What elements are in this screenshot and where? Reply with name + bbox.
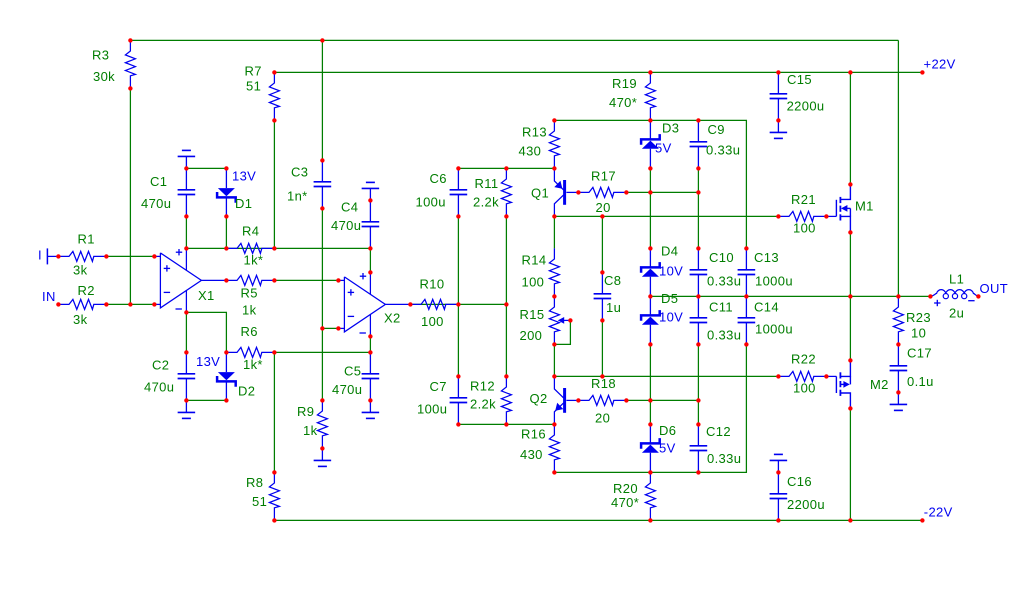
capacitor C14: [738, 296, 756, 344]
mosfet M1: [826, 184, 850, 232]
svg-text:100u: 100u: [417, 402, 447, 417]
svg-text:1000u: 1000u: [755, 274, 793, 289]
svg-text:1k*: 1k*: [243, 357, 263, 372]
ground above C16: [770, 454, 788, 472]
resistor R11: [501, 168, 511, 216]
svg-text:C4: C4: [341, 200, 358, 215]
resistor R7: [269, 72, 279, 120]
svg-text:-22V: -22V: [924, 504, 953, 519]
wire D1 bottom to R4: [225, 216, 227, 248]
wire R17 to zener/C9 columns: [626, 191, 698, 193]
wire C9 to C10: [697, 168, 699, 248]
svg-text:0.33u: 0.33u: [707, 451, 741, 466]
svg-text:C8: C8: [604, 273, 621, 288]
resistor R23: [893, 296, 903, 344]
svg-text:2200u: 2200u: [787, 99, 825, 114]
svg-text:OUT: OUT: [980, 281, 1009, 296]
capacitor C7: [450, 376, 468, 424]
svg-text:R15: R15: [520, 307, 545, 322]
zener diode D1: [217, 168, 236, 216]
svg-text:3k: 3k: [73, 263, 88, 278]
svg-text:C10: C10: [709, 250, 734, 265]
capacitor C15: [770, 72, 788, 120]
svg-text:C6: C6: [430, 171, 447, 186]
capacitor C2: [178, 352, 196, 400]
svg-text:470*: 470*: [609, 95, 637, 110]
svg-text:20: 20: [595, 411, 610, 426]
ground below C15: [770, 120, 788, 138]
svg-text:R4: R4: [242, 224, 259, 239]
wire C2 bottom to D2 bottom: [186, 399, 226, 401]
wire D5 bottom to D6 top: [649, 344, 651, 424]
junction and pin dots: [56, 38, 980, 522]
svg-text:51: 51: [252, 494, 267, 509]
resistor R20: [645, 472, 655, 520]
port I bar: [47, 248, 58, 264]
resistor R22: [778, 371, 826, 381]
svg-text:C3: C3: [291, 165, 308, 180]
wire C8 bottom to Q2 row: [601, 320, 603, 376]
wire C4 bottom to X2 +supply: [369, 248, 371, 272]
svg-text:20: 20: [596, 200, 611, 215]
svg-text:IN: IN: [42, 289, 56, 304]
capacitor C16: [770, 472, 788, 520]
svg-text:R7: R7: [245, 64, 262, 79]
resistor R16: [549, 424, 559, 472]
op-amp X2: [338, 272, 410, 336]
resistor R17: [578, 187, 626, 197]
svg-text:1k: 1k: [303, 423, 318, 438]
wire X2 -supply row / R6 to C5: [274, 351, 370, 353]
svg-text:1k*: 1k*: [244, 253, 264, 268]
svg-text:1k: 1k: [242, 303, 257, 318]
wire C1 bottom to X1 +supply: [185, 216, 187, 248]
svg-text:X1: X1: [198, 288, 215, 303]
svg-text:470u: 470u: [141, 196, 171, 211]
svg-text:D5: D5: [661, 291, 678, 306]
resistor R6: [226, 347, 274, 357]
op-amp X1: [154, 248, 226, 312]
svg-text:+22V: +22V: [924, 57, 956, 72]
wire X1 supply row to C4/X2: [186, 247, 370, 249]
resistor R12: [501, 376, 511, 424]
svg-text:R19: R19: [612, 76, 637, 91]
svg-text:R9: R9: [297, 404, 314, 419]
svg-text:Q2: Q2: [530, 391, 548, 406]
ground below C17: [890, 392, 908, 410]
mosfet M2: [826, 360, 850, 408]
wire Q1 collector to R14: [553, 216, 555, 248]
svg-text:430: 430: [520, 447, 543, 462]
svg-text:200: 200: [520, 328, 543, 343]
svg-text:2200u: 2200u: [787, 497, 825, 512]
resistor R10: [410, 299, 458, 309]
svg-text:100: 100: [421, 314, 444, 329]
svg-text:C1: C1: [150, 174, 167, 189]
svg-text:C16: C16: [787, 474, 812, 489]
wire R6 node down to R8: [273, 352, 275, 472]
svg-text:13V: 13V: [232, 169, 256, 184]
svg-text:R5: R5: [241, 286, 258, 301]
capacitor C5: [362, 352, 380, 400]
svg-text:470u: 470u: [332, 382, 362, 397]
svg-text:470u: 470u: [331, 218, 361, 233]
resistor R1: [58, 251, 106, 261]
svg-text:470u: 470u: [144, 380, 174, 395]
svg-text:2.2k: 2.2k: [473, 195, 499, 210]
component labels (green): [73, 48, 964, 513]
zener diode D4: [641, 248, 660, 296]
capacitor C17: [890, 344, 908, 392]
transistor Q2: [554, 376, 578, 424]
svg-text:1n*: 1n*: [287, 189, 308, 204]
resistor R5: [226, 275, 274, 285]
wire R11 bottom to R12 top: [505, 216, 507, 376]
wire X2 out to R10 row: [410, 303, 506, 305]
svg-text:C12: C12: [706, 424, 731, 439]
svg-text:M2: M2: [870, 377, 889, 392]
wire top feedback rail: [130, 39, 898, 41]
wire feedback drop to output node: [897, 40, 899, 296]
svg-text:1u: 1u: [606, 300, 621, 315]
svg-text:100: 100: [793, 381, 816, 396]
resistor R14: [549, 248, 559, 296]
svg-text:470*: 470*: [611, 495, 639, 510]
zener diode D3: [641, 120, 660, 168]
wire C7 bottom to Q2 emitter row: [458, 423, 554, 425]
wire Q1 row to C8 top: [601, 216, 603, 272]
ground below R9: [314, 448, 332, 466]
wire X1 -supply to C2: [185, 312, 187, 352]
zener diode D5: [641, 296, 660, 344]
svg-text:C11: C11: [709, 300, 733, 315]
svg-text:R23: R23: [906, 310, 931, 325]
svg-text:0.1u: 0.1u: [907, 374, 934, 389]
wire R15 wiper short: [554, 320, 570, 344]
svg-text:R10: R10: [420, 277, 445, 292]
capacitor C3: [314, 160, 332, 208]
svg-text:R3: R3: [92, 48, 109, 63]
capacitor C6: [450, 168, 468, 216]
wire C1 to D1 top: [186, 167, 226, 169]
wire M2 drain to -22V rail: [849, 408, 851, 520]
wire R15 bottom to Q2 collector: [553, 344, 555, 376]
svg-text:R1: R1: [78, 232, 95, 247]
svg-text:Q1: Q1: [531, 186, 549, 201]
ground below C2: [178, 400, 196, 418]
svg-text:R21: R21: [791, 192, 816, 207]
svg-text:D2: D2: [238, 384, 255, 399]
wire Q2 collector row to R22: [554, 375, 778, 377]
wire R16 bottom row to C14: [554, 344, 746, 472]
svg-text:C5: C5: [344, 364, 361, 379]
inductor L1: [930, 290, 978, 299]
svg-text:R13: R13: [522, 125, 547, 140]
ground above C1: [178, 150, 196, 168]
resistor R18: [578, 395, 626, 405]
capacitor C13: [738, 248, 756, 296]
svg-text:100: 100: [793, 221, 816, 236]
svg-text:R11: R11: [475, 176, 499, 191]
capacitor C1: [178, 168, 196, 216]
svg-text:L1: L1: [949, 272, 964, 287]
svg-text:0.33u: 0.33u: [707, 328, 741, 343]
svg-text:5V: 5V: [659, 441, 676, 456]
resistor R21: [778, 211, 826, 221]
wire top rail to C3: [321, 40, 323, 160]
svg-text:I: I: [38, 248, 42, 263]
wire +22V rail: [274, 71, 922, 73]
svg-text:10: 10: [911, 326, 926, 341]
svg-text:R2: R2: [78, 283, 95, 298]
svg-text:C2: C2: [152, 358, 169, 373]
resistor R9: [317, 400, 327, 448]
svg-text:R17: R17: [591, 169, 616, 184]
resistor R19: [645, 72, 655, 120]
svg-text:51: 51: [246, 79, 261, 94]
svg-text:2.2k: 2.2k: [470, 397, 496, 412]
svg-text:C9: C9: [708, 122, 725, 137]
wire Q1 collector row to R21: [554, 215, 778, 217]
zener diode D6: [641, 424, 660, 472]
svg-text:D1: D1: [235, 196, 252, 211]
wire -22V rail: [274, 519, 922, 521]
svg-text:0.33u: 0.33u: [707, 274, 741, 289]
wire R13/R19/C9 row: [554, 120, 746, 248]
svg-text:R12: R12: [470, 379, 495, 394]
svg-text:10V: 10V: [659, 310, 683, 325]
svg-text:R8: R8: [246, 475, 263, 490]
svg-text:R16: R16: [521, 427, 546, 442]
svg-text:C14: C14: [754, 300, 779, 315]
svg-text:C7: C7: [430, 379, 447, 394]
inductor L1 polarity +: [934, 300, 940, 306]
svg-text:D6: D6: [659, 423, 676, 438]
svg-text:100u: 100u: [416, 194, 446, 209]
ground above C4: [362, 182, 380, 200]
svg-text:2u: 2u: [949, 306, 964, 321]
capacitor C4: [362, 200, 380, 248]
capacitor C12: [690, 424, 708, 472]
capacitor C9: [690, 120, 708, 168]
transistor Q1: [554, 168, 578, 216]
wire R2 to X1 -input: [106, 303, 154, 305]
svg-text:100: 100: [522, 275, 545, 290]
svg-text:5V: 5V: [655, 141, 672, 156]
svg-text:X2: X2: [384, 311, 401, 326]
wire M1 source to M2 source: [849, 232, 851, 360]
svg-text:C13: C13: [754, 250, 779, 265]
wire R18 to zener/C12 columns: [626, 399, 698, 401]
net and value labels (blue): [38, 57, 1008, 520]
inductor L1 polarity -: [968, 300, 974, 302]
wire output node row: [650, 295, 930, 297]
svg-text:M1: M1: [855, 199, 874, 214]
svg-text:C15: C15: [787, 72, 812, 87]
wire +22V to M1 drain: [849, 72, 851, 184]
svg-text:1000u: 1000u: [755, 322, 793, 337]
svg-text:13V: 13V: [196, 354, 220, 369]
resistor R13: [549, 120, 559, 168]
svg-text:R14: R14: [522, 253, 547, 268]
wire C11 bottom to C12 top: [697, 344, 699, 424]
svg-text:C17: C17: [907, 346, 932, 361]
capacitor C11: [690, 296, 708, 344]
wire C3 to X2 inverting node: [321, 208, 323, 400]
resistor R8: [269, 472, 279, 520]
svg-text:3k: 3k: [73, 312, 88, 327]
ground below C5: [362, 400, 380, 418]
resistor R2: [58, 299, 106, 309]
svg-text:D3: D3: [662, 121, 679, 136]
wire X2 -input to C3 node: [322, 327, 338, 329]
svg-text:R20: R20: [613, 481, 638, 496]
wire R1 to X1 +input: [106, 255, 154, 257]
svg-text:R18: R18: [591, 376, 616, 391]
svg-text:30k: 30k: [93, 69, 115, 84]
wire X1 -supply jog: [186, 312, 226, 352]
svg-text:R6: R6: [241, 324, 258, 339]
wire bias row C6-R11-Q1: [458, 167, 554, 169]
wire R7 bottom to R4 row: [273, 120, 275, 248]
capacitor C10: [690, 248, 708, 296]
resistor R4: [226, 243, 274, 253]
wire X2 -supply to C5: [369, 336, 371, 352]
capacitor C8: [594, 272, 612, 320]
svg-text:D4: D4: [661, 244, 678, 259]
svg-text:0.33u: 0.33u: [706, 143, 740, 158]
zener diode D2: [217, 352, 236, 400]
wire D3 to D4: [649, 168, 651, 248]
svg-text:R22: R22: [791, 352, 816, 367]
potentiometer R15: [549, 296, 570, 344]
resistor R3: [125, 40, 135, 88]
wire C6 bottom to C7 top: [457, 216, 459, 376]
wire R5 to X2 +input: [274, 279, 338, 281]
svg-text:430: 430: [519, 144, 542, 159]
wire R3 to inverting input node: [129, 88, 131, 304]
svg-text:10V: 10V: [659, 264, 683, 279]
